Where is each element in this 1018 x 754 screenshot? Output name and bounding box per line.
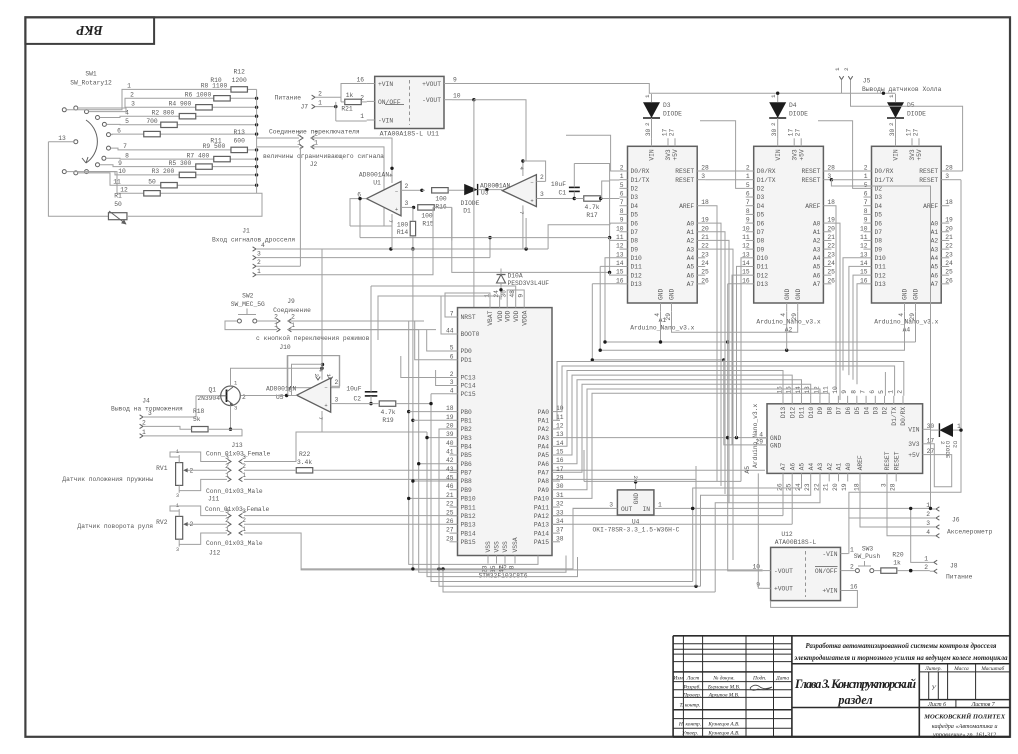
svg-text:11: 11 <box>742 234 750 241</box>
svg-text:17: 17 <box>788 129 795 137</box>
svg-text:A5: A5 <box>744 466 751 474</box>
svg-text:A2: A2 <box>931 238 939 245</box>
svg-text:D12: D12 <box>789 407 796 419</box>
svg-text:D10: D10 <box>808 407 815 419</box>
wire J12.1 to male <box>244 532 260 534</box>
svg-text:9: 9 <box>118 160 122 167</box>
svg-text:ATA00B18S-L: ATA00B18S-L <box>775 539 817 546</box>
svg-text:VSSA: VSSA <box>512 537 519 552</box>
svg-text:D8: D8 <box>631 238 639 245</box>
svg-text:RESET: RESET <box>893 451 900 470</box>
svg-text:Arduino_Nano_v3.x: Arduino_Nano_v3.x <box>874 319 938 326</box>
svg-text:24: 24 <box>795 483 802 491</box>
svg-text:D5: D5 <box>631 212 639 219</box>
wire R19 to H5 <box>431 404 693 582</box>
svg-text:PA7: PA7 <box>538 470 550 477</box>
diode D4 <box>769 94 808 138</box>
svg-text:10: 10 <box>742 225 750 232</box>
svg-text:D11: D11 <box>799 407 806 419</box>
svg-text:Arduino_Nano_v3.x: Arduino_Nano_v3.x <box>756 319 820 326</box>
svg-text:D1/TX: D1/TX <box>757 177 776 184</box>
svg-text:J6: J6 <box>952 517 960 524</box>
wire RV2 wiper <box>190 523 227 525</box>
wire PB3 tap <box>425 436 449 439</box>
svg-text:D1/TX: D1/TX <box>875 177 894 184</box>
svg-text:A0: A0 <box>845 463 852 471</box>
svg-text:23: 23 <box>945 251 953 258</box>
svg-text:6: 6 <box>869 390 876 394</box>
svg-text:+VOUT: +VOUT <box>774 586 793 593</box>
svg-text:2: 2 <box>360 94 364 101</box>
wire J7.2 to U11 <box>315 84 367 98</box>
svg-text:2: 2 <box>540 174 544 181</box>
svg-text:PA15: PA15 <box>534 539 549 546</box>
svg-text:19: 19 <box>945 217 953 224</box>
svg-text:J10: J10 <box>279 344 291 351</box>
diode D10A <box>497 269 550 300</box>
svg-text:МОСКОВСКИЙ ПОЛИТЕХ: МОСКОВСКИЙ ПОЛИТЕХ <box>923 713 1006 721</box>
svg-text:3.4k: 3.4k <box>297 459 312 466</box>
svg-text:A1: A1 <box>813 229 821 236</box>
wire GND rail G1 <box>672 311 798 332</box>
svg-text:с кнопкой переключения режимов: с кнопкой переключения режимов <box>256 334 370 342</box>
svg-text:SW_Rotary12: SW_Rotary12 <box>70 80 112 87</box>
svg-text:13: 13 <box>556 431 564 438</box>
wire A2 D10 down <box>741 258 746 482</box>
svg-text:R2 800: R2 800 <box>152 109 175 116</box>
svg-text:R8 1100: R8 1100 <box>201 83 228 90</box>
svg-text:-VOUT: -VOUT <box>422 97 441 104</box>
svg-text:VDD: VDD <box>513 310 520 322</box>
svg-text:1k: 1k <box>893 560 901 567</box>
wire U5 feedback inner <box>292 364 323 395</box>
svg-text:RESET: RESET <box>919 168 938 175</box>
svg-text:A5: A5 <box>799 463 806 471</box>
svg-text:SW1: SW1 <box>85 71 97 78</box>
svg-text:кафедра «Автоматика и: кафедра «Автоматика и <box>932 723 998 730</box>
wire U5 feedback outer <box>288 356 340 396</box>
svg-text:1: 1 <box>257 268 261 275</box>
svg-text:A6: A6 <box>813 272 821 279</box>
svg-text:A4: A4 <box>808 463 815 471</box>
connector J12 <box>205 506 269 556</box>
svg-text:6: 6 <box>495 182 499 189</box>
svg-text:PB10: PB10 <box>461 496 476 503</box>
wire GND rail G4 <box>591 284 726 362</box>
label J10 mode switch <box>256 334 370 351</box>
svg-text:12: 12 <box>813 386 820 394</box>
capacitor C2 <box>346 286 377 405</box>
svg-text:41: 41 <box>446 449 454 456</box>
svg-text:7: 7 <box>746 199 750 206</box>
svg-text:5: 5 <box>620 182 624 189</box>
svg-text:D4: D4 <box>875 203 883 210</box>
svg-text:D2: D2 <box>882 407 889 415</box>
svg-text:3V3: 3V3 <box>908 441 920 448</box>
svg-text:7: 7 <box>860 390 867 394</box>
svg-text:PD1: PD1 <box>461 357 473 364</box>
svg-text:2: 2 <box>770 122 777 126</box>
svg-text:Питание: Питание <box>275 95 302 102</box>
svg-text:GND: GND <box>669 288 676 300</box>
svg-text:12: 12 <box>616 243 624 250</box>
svg-text:Утвер.: Утвер. <box>682 730 698 736</box>
svg-text:26: 26 <box>945 277 953 284</box>
svg-text:SW2: SW2 <box>242 293 254 300</box>
svg-text:Conn_01x03_Male: Conn_01x03_Male <box>206 488 263 495</box>
svg-text:+: + <box>530 197 533 204</box>
wire PC14 left <box>436 370 450 386</box>
svg-text:3: 3 <box>926 520 930 527</box>
svg-text:D2: D2 <box>757 186 765 193</box>
wire R15 to D12 <box>452 207 620 275</box>
svg-text:−: − <box>530 179 533 186</box>
svg-text:24: 24 <box>945 260 953 267</box>
wire Q1 emitter <box>229 406 232 431</box>
svg-text:A5: A5 <box>813 264 821 271</box>
svg-text:23: 23 <box>827 251 835 258</box>
svg-text:D7: D7 <box>631 229 639 236</box>
svg-text:28: 28 <box>890 483 897 491</box>
svg-text:13: 13 <box>804 386 811 394</box>
wire A2 A0 down <box>831 223 840 400</box>
wire bottom H1 <box>409 321 538 564</box>
svg-text:GND: GND <box>658 288 665 300</box>
svg-text:21: 21 <box>945 234 953 241</box>
svg-text:10: 10 <box>860 225 868 232</box>
svg-text:2: 2 <box>843 67 850 71</box>
svg-text:4: 4 <box>518 167 525 171</box>
wire PD1 left <box>415 321 450 360</box>
wire SW1 left rail <box>48 142 108 217</box>
svg-text:4: 4 <box>780 313 787 317</box>
svg-text:A3: A3 <box>687 246 695 253</box>
svg-text:A0: A0 <box>931 220 939 227</box>
svg-text:D5: D5 <box>907 102 915 109</box>
svg-text:R17: R17 <box>586 212 598 219</box>
svg-text:U12: U12 <box>781 531 793 538</box>
svg-text:+5V: +5V <box>916 149 923 161</box>
svg-text:R19: R19 <box>382 417 394 424</box>
svg-text:Разраб.: Разраб. <box>682 684 700 691</box>
svg-text:−: − <box>395 188 398 195</box>
svg-text:27: 27 <box>795 129 802 137</box>
wire PC13 left <box>401 356 450 378</box>
svg-text:Arduino_Nano_v3.x: Arduino_Nano_v3.x <box>630 325 694 332</box>
resistor R19 <box>345 401 430 424</box>
svg-text:7: 7 <box>518 211 525 215</box>
wire +VOUT rail <box>452 84 896 95</box>
svg-text:D3: D3 <box>875 194 883 201</box>
svg-text:27: 27 <box>913 129 920 137</box>
wire J1.3 <box>256 257 490 259</box>
svg-text:15: 15 <box>786 386 793 394</box>
wire C1 top to D1TX <box>574 164 619 276</box>
svg-text:25: 25 <box>701 269 709 276</box>
svg-text:Лист: Лист <box>686 676 700 682</box>
switch SW1 row wires <box>66 89 256 193</box>
svg-text:23: 23 <box>701 251 709 258</box>
svg-text:Датчик положения пружины: Датчик положения пружины <box>62 476 153 483</box>
svg-text:2: 2 <box>896 390 903 394</box>
label RV2 <box>77 523 153 530</box>
svg-text:A2: A2 <box>813 238 821 245</box>
svg-text:GND: GND <box>784 288 791 300</box>
wire J12.2 long <box>244 523 792 525</box>
wire H6 riser J13.1 <box>695 479 697 586</box>
connector J1 <box>212 228 295 278</box>
label RV1 <box>62 476 153 483</box>
svg-text:Вход сигналов дросселя: Вход сигналов дросселя <box>212 236 295 243</box>
wire A1 D0 up <box>566 135 620 171</box>
regulator U4 <box>593 476 680 534</box>
svg-text:PB9: PB9 <box>461 487 473 494</box>
svg-text:3: 3 <box>540 191 544 198</box>
svg-text:OUT: OUT <box>621 506 633 513</box>
svg-text:D3: D3 <box>631 194 639 201</box>
svg-text:1: 1 <box>864 173 868 180</box>
svg-text:R13: R13 <box>234 129 246 136</box>
svg-text:ВКР: ВКР <box>76 23 104 38</box>
wire J1.4 long <box>256 225 577 251</box>
wire J1.2 up <box>299 147 301 266</box>
wire J2.1 right <box>311 147 384 226</box>
svg-text:J9: J9 <box>287 298 295 305</box>
svg-text:PA5: PA5 <box>538 452 550 459</box>
svg-text:3V3: 3V3 <box>791 149 798 161</box>
svg-text:13: 13 <box>742 251 750 258</box>
svg-text:IN: IN <box>642 506 650 513</box>
svg-text:21: 21 <box>823 483 830 491</box>
svg-text:3: 3 <box>335 397 339 404</box>
svg-text:D11: D11 <box>875 264 887 271</box>
svg-text:PB15: PB15 <box>461 539 476 546</box>
svg-text:A0: A0 <box>687 220 695 227</box>
svg-text:Листов 7: Листов 7 <box>970 702 995 708</box>
svg-text:30: 30 <box>889 129 896 137</box>
svg-text:1: 1 <box>644 94 651 98</box>
svg-text:7: 7 <box>620 199 624 206</box>
svg-text:ATA00A18S-L U11: ATA00A18S-L U11 <box>380 131 439 138</box>
svg-text:25: 25 <box>945 269 953 276</box>
label limiting signal <box>263 153 384 160</box>
svg-text:PA0: PA0 <box>538 409 550 416</box>
svg-text:2: 2 <box>318 90 322 97</box>
wire A4 D12 down <box>853 275 864 380</box>
svg-text:48: 48 <box>509 290 516 298</box>
svg-text:Вывод на торможения: Вывод на торможения <box>111 405 183 412</box>
svg-text:8: 8 <box>864 208 868 215</box>
svg-text:8: 8 <box>620 208 624 215</box>
svg-text:GND: GND <box>770 443 782 450</box>
svg-text:Провер.: Провер. <box>682 693 701 699</box>
svg-text:9: 9 <box>453 77 457 84</box>
voltage regulator U11 <box>356 76 460 137</box>
svg-text:30: 30 <box>556 483 564 490</box>
svg-text:5: 5 <box>450 345 454 352</box>
wire U5 out <box>241 394 297 397</box>
svg-text:J13: J13 <box>231 442 243 449</box>
svg-text:DIODE: DIODE <box>663 111 682 118</box>
svg-text:Масса: Масса <box>953 666 969 672</box>
svg-text:4: 4 <box>387 174 394 178</box>
svg-text:PA2: PA2 <box>538 426 550 433</box>
svg-text:3: 3 <box>234 405 237 412</box>
potentiometer RV2 <box>156 503 193 553</box>
svg-text:SW_Push: SW_Push <box>854 553 881 560</box>
svg-text:GND: GND <box>795 288 802 300</box>
resistor R1 adjustable <box>108 211 127 225</box>
svg-text:11: 11 <box>860 234 868 241</box>
wire U4 IN to J6.1 <box>662 507 932 509</box>
svg-text:J2: J2 <box>310 161 318 168</box>
connector J9 <box>273 298 311 332</box>
svg-text:PB8: PB8 <box>461 478 473 485</box>
microcontroller U2 STM32F103C8T6 <box>446 290 564 580</box>
svg-text:7: 7 <box>450 311 454 318</box>
svg-text:C1: C1 <box>558 190 566 197</box>
wire GND rail G3 <box>599 266 905 352</box>
svg-text:1: 1 <box>620 173 624 180</box>
svg-text:10: 10 <box>752 564 760 571</box>
wire A4 D13 down <box>857 284 864 385</box>
svg-text:D0/RX: D0/RX <box>875 168 894 175</box>
svg-text:1: 1 <box>314 140 318 147</box>
wire A4 D11 down <box>849 266 864 375</box>
svg-text:2: 2 <box>130 92 134 99</box>
connector J2 <box>269 129 360 169</box>
svg-text:A5: A5 <box>931 264 939 271</box>
svg-text:2: 2 <box>620 165 624 172</box>
connector J4 <box>111 397 183 438</box>
svg-text:31: 31 <box>556 492 564 499</box>
svg-text:9: 9 <box>518 294 525 298</box>
svg-text:R14: R14 <box>397 229 409 236</box>
title block <box>672 636 1010 739</box>
arduino A2 <box>742 129 835 334</box>
svg-text:1: 1 <box>360 113 364 120</box>
svg-text:A0: A0 <box>813 220 821 227</box>
svg-text:A4: A4 <box>813 255 821 262</box>
svg-text:1: 1 <box>325 374 332 378</box>
svg-text:J5: J5 <box>863 78 871 85</box>
svg-text:Изм: Изм <box>672 676 683 682</box>
diode D1 <box>461 182 511 214</box>
svg-text:3: 3 <box>225 508 229 515</box>
svg-text:J12: J12 <box>209 549 221 556</box>
svg-text:Arduino_Nano_v3.x: Arduino_Nano_v3.x <box>752 404 759 468</box>
svg-text:величины ограничивающего сигна: величины ограничивающего сигнала <box>263 153 384 160</box>
svg-text:18: 18 <box>827 199 835 206</box>
svg-text:PB6: PB6 <box>461 461 473 468</box>
svg-text:10uF: 10uF <box>346 386 361 393</box>
svg-text:3: 3 <box>242 454 246 461</box>
svg-text:D13: D13 <box>631 281 643 288</box>
svg-text:26: 26 <box>701 277 709 284</box>
svg-text:+VOUT: +VOUT <box>422 81 441 88</box>
svg-text:8: 8 <box>746 208 750 215</box>
wire STM32 top risers <box>371 286 524 340</box>
wire bottom H3 <box>419 330 566 573</box>
svg-text:+5V: +5V <box>672 149 679 161</box>
svg-text:22: 22 <box>701 243 709 250</box>
svg-text:GND: GND <box>633 493 640 505</box>
wire A2 D2 up <box>700 121 746 189</box>
svg-text:R20: R20 <box>892 551 904 558</box>
svg-text:D10: D10 <box>757 255 769 262</box>
svg-text:D12: D12 <box>757 272 769 279</box>
svg-text:PA8: PA8 <box>538 478 550 485</box>
svg-text:600: 600 <box>234 138 246 145</box>
wire A5 D1TX stair <box>560 366 895 412</box>
svg-text:37: 37 <box>556 527 564 534</box>
svg-text:21: 21 <box>446 492 454 499</box>
resistor R20 <box>881 551 930 573</box>
svg-text:Литер.: Литер. <box>924 666 942 672</box>
op-amp U3 <box>502 161 552 218</box>
svg-text:1: 1 <box>242 472 246 479</box>
svg-text:PB12: PB12 <box>461 513 476 520</box>
svg-text:Н. контр.: Н. контр. <box>678 722 701 728</box>
wire A5 D0RX stair <box>557 362 904 421</box>
svg-text:AREF: AREF <box>679 203 694 210</box>
svg-text:16: 16 <box>556 457 564 464</box>
wire PD0 left <box>427 330 450 351</box>
svg-text:4.7k: 4.7k <box>380 409 395 416</box>
svg-text:D9: D9 <box>875 246 883 253</box>
wire U3 pin7 down <box>523 218 526 249</box>
svg-text:A7: A7 <box>687 281 695 288</box>
svg-text:D10: D10 <box>631 255 643 262</box>
svg-text:D9: D9 <box>817 407 824 415</box>
svg-text:Масштаб: Масштаб <box>980 665 1004 672</box>
svg-text:D13: D13 <box>757 281 769 288</box>
svg-text:VSS: VSS <box>502 541 509 553</box>
svg-text:2: 2 <box>242 463 246 470</box>
arduino A5 <box>744 386 934 491</box>
svg-text:2: 2 <box>335 379 339 386</box>
svg-text:25: 25 <box>446 509 454 516</box>
svg-text:VDDA: VDDA <box>521 310 528 325</box>
wire SW1 bottom rail <box>127 89 262 216</box>
wire A1 D6 J1.4 <box>577 223 620 225</box>
resistor R22 <box>244 451 765 473</box>
svg-text:AD8001AN: AD8001AN <box>359 172 389 179</box>
svg-text:Архипов М.В.: Архипов М.В. <box>708 693 740 699</box>
svg-text:50: 50 <box>148 178 156 185</box>
svg-text:22: 22 <box>814 483 821 491</box>
svg-text:A5: A5 <box>687 264 695 271</box>
svg-text:A6: A6 <box>789 463 796 471</box>
svg-text:J1: J1 <box>242 228 250 235</box>
svg-text:+VIN: +VIN <box>822 588 837 595</box>
wire R14 to H2 <box>411 249 414 571</box>
svg-text:PB13: PB13 <box>461 522 476 529</box>
svg-text:PA3: PA3 <box>538 435 550 442</box>
diode D5 <box>887 94 926 138</box>
svg-text:5k: 5k <box>193 416 201 423</box>
svg-text:U4: U4 <box>632 519 640 526</box>
svg-text:4: 4 <box>125 109 129 116</box>
wire U12 +VIN loop <box>771 591 858 608</box>
resistor R18 <box>143 408 242 432</box>
svg-text:A1: A1 <box>659 317 667 324</box>
svg-text:A3: A3 <box>931 246 939 253</box>
resistor R17 <box>574 196 619 219</box>
svg-text:D12: D12 <box>631 272 643 279</box>
svg-text:A2: A2 <box>826 463 833 471</box>
svg-text:18: 18 <box>701 199 709 206</box>
